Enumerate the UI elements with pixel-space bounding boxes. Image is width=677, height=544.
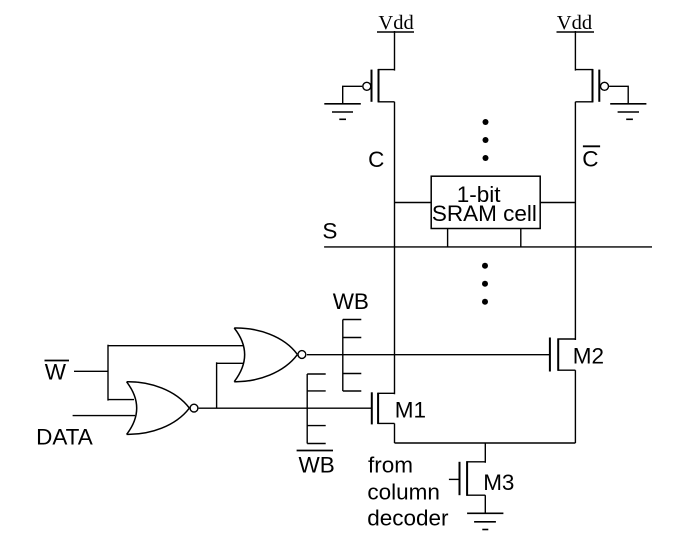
ground M3: [467, 513, 503, 529]
node Wbar overbar: [45, 360, 70, 362]
wire rail to M3 drain: [484, 443, 486, 463]
wire NOR1 output to M1 gate: [199, 407, 372, 409]
transistor M3 gate bar: [459, 462, 461, 495]
transistor right PMOS pull-up (drain jog, channel, source jog): [575, 69, 592, 102]
svg-text:from: from: [368, 452, 413, 477]
node Wbar label: [45, 359, 67, 384]
1-bit SRAM cell box: [431, 176, 540, 228]
svg-text:M1: M1: [395, 398, 426, 423]
transistor M2 (drain jog, channel, source jog): [558, 339, 575, 371]
gate NOR1 (lower) body: [127, 382, 190, 435]
transistor left PMOS gate bar: [371, 70, 373, 102]
wire left PMOS gate to ground: [343, 86, 363, 104]
text from column decoder: [367, 452, 449, 530]
svg-text:column: column: [367, 480, 440, 505]
dots column continuation above SRAM cell: [483, 119, 489, 161]
node S label: [322, 219, 337, 244]
wire SRAM cell right to Cbar: [540, 202, 575, 204]
svg-text:M3: M3: [483, 470, 514, 495]
gate NOR2 (upper) body: [234, 328, 297, 382]
wire to NOR1 top input: [108, 399, 134, 401]
svg-text:C: C: [368, 147, 384, 172]
wire feedback NOR1 output to NOR2 bottom input: [216, 362, 218, 408]
wire SRAM cell bottom stub right to S: [520, 229, 522, 247]
wire column line Cbar: [574, 102, 576, 340]
node WBbar label: [299, 452, 335, 477]
svg-text:Vdd: Vdd: [378, 12, 413, 34]
wire NOR2 bottom input: [217, 362, 244, 364]
power Vdd right rail: [557, 31, 595, 33]
wire SRAM cell bottom stub left to S: [447, 229, 449, 247]
wire column line C: [394, 102, 396, 395]
wire SRAM cell left to C: [395, 202, 432, 204]
pass gate symbol WB (vertical bar with stubs): [343, 320, 362, 392]
svg-text:C: C: [582, 147, 598, 172]
wire right PMOS gate to ground: [609, 86, 628, 104]
svg-text:M2: M2: [573, 344, 604, 369]
wire M1 source down: [394, 423, 396, 443]
power Vdd right label: [557, 12, 592, 34]
transistor left PMOS gate bubble: [363, 82, 371, 90]
gate NOR2 output bubble: [298, 351, 306, 359]
wire DATA input to NOR1 bottom input: [73, 415, 135, 417]
wire Wbar input: [74, 370, 108, 372]
wire M3 gate stub from column decoder: [449, 478, 460, 480]
transistor M1 gate bar: [371, 392, 373, 424]
wire M2 source down: [574, 370, 576, 443]
node Cbar overbar: [583, 145, 600, 147]
power Vdd left rail: [377, 31, 414, 33]
wire bottom rail M1/M2 sources: [395, 442, 576, 444]
pass gate symbol WBbar (vertical bar with stubs): [307, 374, 326, 444]
wire NOR2 output to M2 gate: [307, 354, 550, 356]
svg-text:SRAM cell: SRAM cell: [432, 201, 537, 226]
transistor M1 label: [395, 398, 426, 423]
wire Vdd left to pull-up drain: [394, 31, 396, 71]
svg-text:decoder: decoder: [367, 505, 449, 530]
node WB label: [333, 289, 369, 314]
node C label: [368, 147, 384, 172]
1-bit SRAM cell label: [432, 182, 537, 226]
node WBbar overbar: [297, 450, 333, 452]
node Cbar label: [582, 147, 598, 172]
dots column continuation below S: [482, 263, 488, 305]
transistor M2 gate bar: [549, 338, 551, 372]
power Vdd left label: [378, 12, 413, 34]
svg-text:WB: WB: [333, 289, 369, 314]
ground left: [324, 104, 361, 120]
svg-text:S: S: [322, 219, 337, 244]
wire Vdd right to pull-up drain: [574, 31, 576, 71]
svg-text:W: W: [45, 359, 67, 384]
transistor right PMOS gate bar: [598, 70, 600, 102]
wire S word line: [324, 246, 652, 248]
transistor M2 label: [573, 344, 604, 369]
svg-text:Vdd: Vdd: [557, 12, 592, 34]
transistor left PMOS pull-up (drain jog, channel, source jog): [379, 69, 395, 102]
svg-text:WB: WB: [299, 452, 335, 477]
transistor M3 label: [483, 470, 514, 495]
gate NOR1 output bubble: [190, 404, 198, 412]
wire M3 source to ground: [484, 495, 486, 513]
node DATA label: [36, 424, 93, 449]
svg-text:DATA: DATA: [36, 424, 93, 449]
wire input split vertical: [107, 345, 109, 401]
wire to NOR2 top input: [108, 345, 244, 347]
transistor M3 (drain jog, channel, source jog): [467, 461, 485, 495]
transistor right PMOS gate bubble: [601, 82, 609, 90]
transistor M1 (drain jog, channel, source jog): [378, 393, 394, 424]
ground right: [610, 104, 646, 120]
